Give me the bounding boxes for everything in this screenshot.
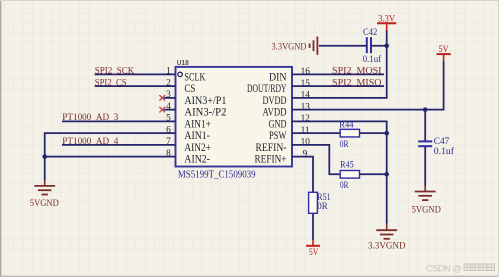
svg-text:3.3V: 3.3V [378,14,395,25]
watermark CSDN [426,264,495,275]
svg-text:11: 11 [301,126,310,136]
pin name GND (pin 12) [269,116,287,130]
svg-text:SPI2_SCK: SPI2_SCK [95,66,135,77]
svg-text:R45: R45 [340,160,354,170]
svg-text:AIN2-: AIN2- [184,152,210,166]
svg-text:R44: R44 [339,121,353,131]
power port 5V (bottom) [306,240,320,246]
pin name AIN2- (pin 8) [184,152,210,166]
pin number 6 [166,125,171,135]
wire pin12 GND to ground column [292,121,387,223]
pin name AIN1+ (pin 5) [184,116,211,130]
wire pin11 PSW to R44 [292,132,341,134]
no-ERC cross pin3 [159,95,165,101]
capacitor C42 [367,37,371,53]
wire C47 to 5VGND [424,146,426,186]
svg-text:SPI2_MOSI: SPI2_MOSI [332,66,382,77]
pin name DVDD (pin 14) [263,93,287,107]
svg-text:PT1000_AD_3: PT1000_AD_3 [62,112,118,123]
svg-text:U18: U18 [177,58,189,67]
svg-text:C47: C47 [434,137,450,147]
value 0.1uf (C47) [434,146,455,157]
wire down to 5VGND (left) [44,157,46,181]
pin number 5 [166,114,171,124]
wire R45 to ground column [360,173,387,175]
wire pin10 REFIN- to R45 [292,145,341,174]
pin name DOUT/RDY (pin 15) [247,81,287,95]
net label SPI2_MOSI [332,66,382,77]
svg-text:0.1uf: 0.1uf [363,54,382,65]
wire C42 left plate to 3.3VGND symbol [319,45,367,47]
value 0.1uf (C42) [363,54,382,65]
wire pin8 AIN2- net [45,156,176,158]
junction dot R45/ground column [384,172,389,177]
designator U18 [177,58,189,67]
svg-text:10: 10 [301,138,311,148]
svg-text:C42: C42 [363,28,378,38]
svg-text:PT1000_AD_4: PT1000_AD_4 [62,136,118,147]
power text 3.3VGND (bottom) [368,240,406,251]
pin 4 stub [164,109,176,111]
no-ERC cross pin4 [159,107,165,113]
pin name REFIN- (pin 10) [256,140,287,154]
resistor R51 [309,192,318,213]
power text 5VGND (left) [30,198,59,209]
svg-text:16: 16 [301,67,311,77]
pin name AIN3+/P1 (pin 3) [184,93,226,107]
net label SPI2_SCK [95,66,135,77]
pin number 9 [303,149,308,159]
wire node down to C47 [424,110,426,142]
power text 5V (bottom) [309,247,319,258]
pin number 13 [301,102,311,112]
pin number 14 [301,91,311,101]
pin name AIN2+ (pin 7) [184,140,211,154]
wire pin6 AIN1- to ground column [45,133,176,157]
net label PT1000_AD_4 [62,136,118,147]
wire pin2 CS net [95,85,176,87]
svg-text:13: 13 [301,102,311,112]
junction dot R44/ground column [384,131,389,136]
svg-text:CSDN @: CSDN @ [426,264,462,275]
svg-text:SPI2_CS: SPI2_CS [95,77,127,88]
power text 5V (top) [439,44,449,55]
svg-text:5V: 5V [439,44,449,55]
svg-text:0R: 0R [317,202,328,212]
pin number 12 [301,114,311,124]
svg-text:14: 14 [301,91,311,101]
pin name AIN1- (pin 6) [184,128,210,142]
svg-text:0.1uf: 0.1uf [434,146,455,157]
pin number 1 [166,67,171,77]
pin name AIN3-/P2 (pin 4) [184,105,226,119]
svg-text:12: 12 [301,114,311,124]
designator R44 [339,121,353,131]
pin 3 stub [164,97,176,99]
ground symbol 5VGND (left) [34,186,55,195]
wire R44 to ground column [360,132,387,134]
pin name AVDD (pin 13) [263,105,287,119]
pin number 4 [166,102,171,112]
power text 3.3VGND (near C42) [272,41,307,52]
wire R51 to 5V port [312,213,314,240]
svg-text:9: 9 [303,149,308,159]
svg-text:MS5199T_C1509039: MS5199T_C1509039 [178,169,256,180]
wire pin14 DVDD to 3.3V rail [292,46,387,98]
wire pin15 DOUT/RDY net [292,85,384,87]
designator R45 [340,160,354,170]
junction dot pin6/pin8 ground node [42,154,47,159]
value 0R (R45) [340,181,349,191]
pin number 7 [166,137,171,147]
power port 3.3V [377,23,396,30]
pin 1 clock dot marker [178,72,182,76]
wire pin9 REFIN+ to R51 [292,157,313,193]
svg-text:SPI2_MISO: SPI2_MISO [332,77,382,88]
value 0R (R44) [340,140,349,150]
wire pin16 DIN net [292,73,384,75]
op-amp U18 component body (MS5199T ADC) [176,67,293,167]
junction dot C42 / 3.3V node [384,43,389,48]
value 0R (R51) [317,202,328,212]
svg-text:5V: 5V [309,247,319,258]
resistor R45 [340,171,359,179]
power port 5V (top) [437,54,451,61]
svg-text:0R: 0R [340,140,349,150]
net label PT1000_AD_3 [62,112,118,123]
pin number 11 [301,126,310,136]
wire pin7 AIN2+ net [62,144,176,146]
5VGND right stem [424,186,426,192]
pin number 15 [301,79,311,89]
pin number 3 [166,90,171,100]
resistor R44 [340,129,359,137]
junction dot AVDD / C47 node [423,107,428,112]
svg-text:3.3VGND: 3.3VGND [272,41,307,52]
ground symbol 3.3VGND (bottom) [376,230,397,239]
svg-text:5VGND: 5VGND [30,198,59,209]
designator R51 [317,193,331,203]
net label SPI2_MISO [332,77,382,88]
power text 3.3V [378,14,395,25]
wire pin13 AVDD to 5V rail [292,61,444,110]
svg-text:REFIN+: REFIN+ [255,152,287,166]
pin name REFIN+ (pin 9) [255,152,287,166]
designator C47 [434,137,450,147]
wire pin5 AIN1+ net [62,120,176,122]
wire C42 right plate to node [371,45,387,47]
net label SPI2_CS [95,77,127,88]
svg-text:3.3VGND: 3.3VGND [368,240,406,251]
5VGND left stem [44,181,46,186]
svg-text:5VGND: 5VGND [412,205,441,216]
pin name SCLK (pin 1) [184,69,205,83]
3.3VGND bottom stem [386,224,388,230]
pin name PSW (pin 11) [269,128,287,142]
pin number 16 [301,67,311,77]
svg-text:15: 15 [301,79,311,89]
pin number 8 [166,149,171,159]
power text 5VGND (right) [412,205,441,216]
pin name DIN (pin 16) [269,69,287,83]
comment MS5199T_C1509039 [178,169,256,180]
svg-text:0R: 0R [340,181,349,191]
designator C42 [363,28,378,38]
pin name CS (pin 2) [184,81,195,95]
power ground symbol 3.3VGND (rotated) [310,37,318,55]
capacitor C47 [418,141,432,146]
wire pin1 SCLK net [95,73,176,75]
3.3V rail riser [386,30,388,46]
pin number 10 [301,138,311,148]
ground symbol 5VGND (right) [415,192,436,201]
pin number 2 [166,78,171,88]
